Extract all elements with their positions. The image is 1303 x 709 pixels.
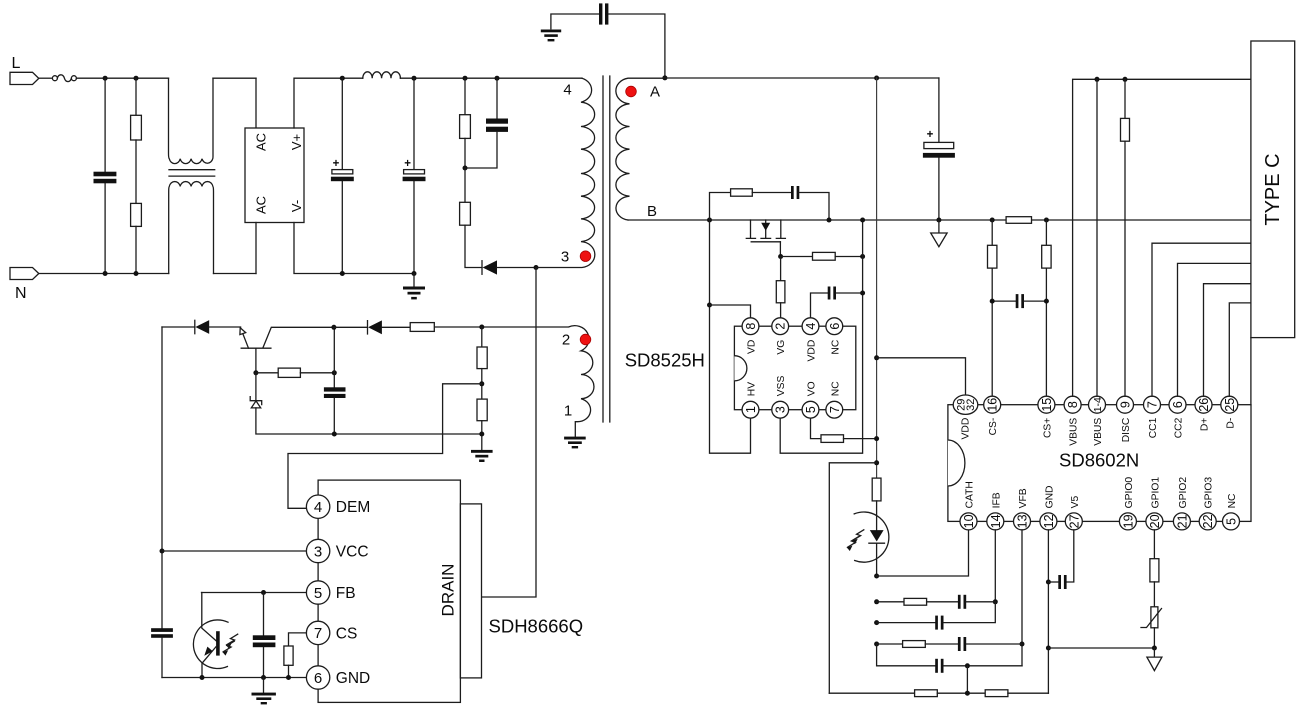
- thermistor RT1: [1141, 607, 1162, 648]
- wire VFB pin down: [1021, 530, 1023, 666]
- svg-text:3: 3: [774, 406, 788, 413]
- node B rail CS+ junction: [1044, 218, 1049, 223]
- svg-text:7: 7: [314, 625, 322, 642]
- svg-text:3: 3: [314, 543, 322, 560]
- wire rail after inductor: [400, 77, 582, 79]
- wire comp row E: [877, 644, 936, 666]
- resistor R-cs-plus: [1042, 220, 1051, 396]
- wire drain down to SDH8666Q tab: [482, 268, 537, 598]
- node CS resistor gnd junction: [286, 675, 291, 680]
- svg-text:V5: V5: [1070, 496, 1081, 509]
- resistor R-ntc-series: [1150, 530, 1159, 607]
- ground primary earth: [403, 274, 425, 300]
- wire FB node: [202, 592, 307, 594]
- resistor R-aux: [410, 323, 434, 332]
- svg-text:VFB: VFB: [1018, 488, 1029, 508]
- wire N rail: [39, 273, 169, 275]
- node clamp RC junction: [463, 166, 468, 171]
- diode D-vcc2: [334, 320, 410, 334]
- svg-text:16: 16: [986, 398, 1000, 412]
- wire L to fuse: [39, 77, 53, 79]
- capacitor C-vcc-cell: [324, 327, 346, 434]
- wire fuse to choke: [76, 77, 168, 79]
- wire bridge AC top: [255, 78, 257, 128]
- pin 1-4 VBUS: [1089, 396, 1106, 446]
- pin 29/32 VDD: [953, 395, 978, 439]
- svg-text:20: 20: [1148, 514, 1162, 528]
- node rail junction clamp R: [463, 76, 468, 81]
- svg-text:VSS: VSS: [776, 375, 787, 396]
- capacitor C-vfb1: [958, 637, 1022, 651]
- svg-text:DRAIN: DRAIN: [439, 564, 458, 617]
- svg-text:1-4: 1-4: [1092, 397, 1104, 412]
- node V+ rail junction at C-bulk1: [340, 76, 345, 81]
- fuse F1: [52, 75, 76, 82]
- wire vcc-cell top left: [162, 326, 195, 328]
- wire VCC to pin 3: [162, 550, 306, 552]
- diode D-clamp: [482, 260, 536, 274]
- svg-text:8: 8: [744, 323, 758, 330]
- ground DEM divider: [471, 450, 493, 462]
- resistor R-base: [256, 368, 334, 377]
- svg-text:HV: HV: [747, 382, 758, 396]
- wire GND pin down: [1047, 530, 1049, 693]
- node divider tap junction: [874, 460, 879, 465]
- pin 6 CC2: [1169, 396, 1186, 438]
- svg-text:9: 9: [1119, 401, 1133, 408]
- node comp row B left junction: [874, 599, 879, 604]
- svg-text:B: B: [647, 203, 657, 220]
- node B rail snubber left junction: [707, 218, 712, 223]
- pin 20 GPIO1: [1146, 477, 1163, 530]
- wire VBUS pin 1-4: [1096, 79, 1098, 396]
- svg-text:AC: AC: [254, 133, 269, 151]
- svg-text:SD8525H: SD8525H: [625, 350, 705, 371]
- node L-rail junction 1: [103, 76, 108, 81]
- svg-text:DISC: DISC: [1121, 417, 1132, 442]
- resistor R-ifb: [877, 598, 958, 605]
- transformer T1 secondary winding A-B: [616, 78, 664, 220]
- ground GPIO1 triangle: [1147, 648, 1162, 671]
- node CATH junction: [874, 574, 879, 579]
- svg-text:5: 5: [314, 585, 322, 602]
- resistor R-disc: [1121, 79, 1130, 396]
- node B rail snubber right junction: [827, 218, 832, 223]
- svg-text:8: 8: [1066, 401, 1080, 408]
- svg-text:L: L: [12, 55, 21, 72]
- node B rail CS- junction: [990, 218, 995, 223]
- pin 15 CS+: [1038, 396, 1055, 438]
- pin 5 NC: [1223, 493, 1240, 530]
- pin 4 VDD: [802, 318, 819, 362]
- node rail junction clamp C: [495, 76, 500, 81]
- svg-text:A: A: [650, 84, 660, 101]
- node N-rail junction 2: [134, 271, 139, 276]
- svg-text:2: 2: [774, 323, 788, 330]
- node Q1 base junction: [253, 370, 258, 375]
- diode D-vcc1: [195, 320, 209, 334]
- capacitor C-cs: [992, 294, 1046, 308]
- common-mode choke L-CM top winding: [169, 78, 214, 163]
- node rail junction at C-bulk2: [412, 76, 417, 81]
- wire between bleed resistors: [135, 140, 137, 203]
- ground aux winding: [564, 437, 586, 449]
- svg-text:7: 7: [1146, 401, 1160, 408]
- node comp row C left junction: [874, 620, 879, 625]
- svg-text:12: 12: [1042, 514, 1056, 528]
- connector J1 TYPE C: [1251, 41, 1295, 338]
- svg-text:3: 3: [561, 249, 569, 266]
- ground Y-cap: [541, 30, 561, 42]
- pin 7 CC1: [1144, 396, 1161, 438]
- node C-out B rail junction: [936, 218, 941, 223]
- wire CATH to pin 10: [877, 530, 969, 576]
- svg-text:GND: GND: [336, 670, 370, 687]
- svg-text:SD8602N: SD8602N: [1059, 450, 1139, 471]
- svg-text:CS: CS: [336, 625, 358, 642]
- pin 7 CS: [306, 621, 357, 644]
- svg-text:4: 4: [563, 82, 571, 99]
- node vcc-cell bottom rail junction: [332, 432, 337, 437]
- pin 6 NC: [826, 318, 843, 355]
- node V- rail junction at C-bulk1: [340, 271, 345, 276]
- svg-text:19: 19: [1121, 514, 1135, 528]
- wire DEM sense: [288, 384, 482, 509]
- chip U1 DRAIN tab: [439, 504, 482, 678]
- capacitor CY1 (Y-cap): [551, 3, 665, 77]
- node VDD sense junction: [874, 355, 879, 360]
- chip U1 SDH8666Q body: [318, 480, 583, 702]
- capacitor CX1 (X-cap): [94, 78, 117, 273]
- svg-text:NC: NC: [1227, 493, 1238, 508]
- pin 5 FB: [306, 581, 355, 604]
- optocoupler U2 transistor side: [193, 593, 237, 678]
- svg-text:N: N: [15, 285, 27, 302]
- resistor R-bleed1: [131, 78, 142, 140]
- resistor R-vdiv-bottom: [985, 690, 1048, 697]
- pin 25 D-: [1221, 396, 1238, 428]
- svg-text:5: 5: [1225, 518, 1239, 525]
- pin 8 VBUS: [1064, 396, 1081, 446]
- wire CC2: [1178, 263, 1251, 396]
- pin 22 GPIO3: [1199, 477, 1216, 530]
- terminal N: [10, 268, 39, 303]
- svg-text:4: 4: [314, 499, 322, 516]
- svg-text:+: +: [333, 158, 340, 170]
- resistor R-vo: [811, 418, 877, 442]
- node VD junction: [707, 303, 712, 308]
- svg-text:1: 1: [744, 406, 758, 413]
- resistor R-gate: [781, 252, 863, 260]
- pin 4 DEM: [306, 495, 370, 518]
- svg-text:5: 5: [804, 406, 818, 413]
- node divider mid top junction: [965, 663, 970, 668]
- svg-text:V+: V+: [289, 134, 304, 150]
- transistor Q1: [209, 327, 334, 373]
- pin 7 NC: [826, 381, 843, 418]
- node gate resistor right junction: [860, 254, 865, 259]
- svg-text:IFB: IFB: [991, 492, 1002, 508]
- node drain junction: [534, 265, 539, 270]
- resistor R-clamp1: [460, 78, 471, 168]
- capacitor C-bulk1 electrolytic: [331, 78, 354, 273]
- resistor R-dem1: [477, 327, 487, 399]
- resistor R-bleed2: [131, 203, 142, 273]
- capacitor C-fb: [253, 593, 276, 678]
- svg-text:25: 25: [1223, 398, 1237, 412]
- wire VBUS top segment: [1073, 79, 1251, 396]
- inductor L-filter: [363, 72, 401, 78]
- svg-text:D-: D-: [1225, 418, 1236, 429]
- wire CC1: [1152, 243, 1251, 396]
- wire IFB pin down: [994, 530, 996, 602]
- svg-text:CATH: CATH: [965, 481, 976, 508]
- node gate junction: [778, 254, 783, 259]
- pin 13 VFB: [1014, 488, 1031, 530]
- svg-text:VDD: VDD: [960, 418, 971, 440]
- node C-cs right junction: [1044, 299, 1049, 304]
- pin 5 VO: [802, 381, 819, 418]
- terminal L: [10, 55, 39, 85]
- svg-text:VCC: VCC: [336, 544, 369, 561]
- svg-text:NC: NC: [830, 339, 841, 354]
- node opto emitter junction: [200, 675, 205, 680]
- node NTC gnd junction: [1152, 646, 1157, 651]
- capacitor C-ifb2: [877, 602, 996, 630]
- pin 8 VD: [742, 318, 759, 354]
- bridge rectifier BR1: [245, 128, 304, 223]
- wire divider feed: [829, 463, 876, 693]
- svg-text:TYPE C: TYPE C: [1262, 153, 1284, 225]
- svg-text:VBUS: VBUS: [1069, 418, 1080, 446]
- svg-text:7: 7: [828, 406, 842, 413]
- svg-text:VBUS: VBUS: [1093, 418, 1104, 446]
- node VDD cap junction: [860, 291, 865, 296]
- svg-text:14: 14: [989, 514, 1003, 528]
- capacitor C-out electrolytic: [923, 78, 955, 220]
- resistor R-vfb: [877, 641, 958, 648]
- svg-text:VD: VD: [747, 340, 758, 354]
- node Y-cap junction on A rail: [662, 75, 667, 80]
- node red dot pin 3: [580, 251, 591, 262]
- resistor R-led: [872, 478, 881, 530]
- svg-text:1: 1: [564, 403, 572, 420]
- capacitor C-clamp: [465, 78, 508, 168]
- svg-text:6: 6: [828, 323, 842, 330]
- node DEM divider junction: [479, 381, 484, 386]
- svg-text:DEM: DEM: [336, 499, 370, 516]
- zener D-z1: [250, 373, 482, 434]
- pin 10 CATH: [960, 481, 977, 530]
- node red dot pin A: [626, 86, 637, 97]
- transformer T1 primary winding pins 4-3: [536, 78, 595, 267]
- pin 3 VCC: [306, 539, 368, 562]
- svg-text:2: 2: [562, 332, 570, 349]
- wire choke to bridge bottom: [214, 273, 257, 275]
- node DISC junction: [1123, 77, 1128, 82]
- svg-text:FB: FB: [336, 585, 356, 602]
- wire divider mid link: [966, 666, 968, 693]
- node VFB junction: [1020, 642, 1025, 647]
- capacitor C-vcc: [151, 628, 173, 677]
- optocoupler U2 LED side: [847, 512, 889, 576]
- pin 14 IFB: [987, 492, 1004, 530]
- svg-text:GPIO0: GPIO0: [1124, 477, 1135, 509]
- svg-text:32: 32: [965, 399, 977, 411]
- wire D+: [1204, 284, 1251, 397]
- chip U3 SD8525H body: [734, 326, 855, 410]
- wire primary gnd rail: [162, 677, 306, 679]
- pin 16 CS-: [984, 396, 1001, 435]
- node C-cs left junction: [990, 299, 995, 304]
- wire TYPE C gnd link to chip: [1250, 338, 1252, 405]
- wire choke to bridge top: [213, 77, 256, 79]
- pin 19 GPIO0: [1119, 477, 1136, 530]
- node comp row D left junction: [874, 642, 879, 647]
- wire HV net: [710, 220, 751, 453]
- node aux divider top junction: [479, 325, 484, 330]
- svg-text:AC: AC: [254, 196, 269, 214]
- svg-text:VO: VO: [807, 381, 818, 396]
- wire bridge V- to rail: [294, 223, 414, 274]
- node red dot pin 2: [580, 334, 591, 345]
- common-mode choke core lines: [169, 170, 215, 176]
- wire B rail: [628, 219, 1251, 221]
- node A rail long-vertical junction: [874, 76, 879, 81]
- capacitor C-snub: [791, 186, 829, 220]
- capacitor C-vdd8525: [811, 287, 863, 318]
- node GND row junction: [1046, 646, 1051, 651]
- svg-text:CS-: CS-: [988, 418, 999, 436]
- transformer T1 aux winding pins 2-1: [434, 326, 594, 437]
- ground primary signal: [252, 678, 276, 705]
- svg-text:10: 10: [962, 514, 976, 528]
- svg-text:4: 4: [804, 323, 818, 330]
- transformer T1 core: [603, 76, 610, 422]
- pin 12 GND: [1040, 486, 1057, 530]
- capacitor C-ifb1: [958, 595, 995, 609]
- svg-text:GPIO2: GPIO2: [1178, 477, 1189, 509]
- node diode D-vcc2 input junction: [331, 325, 336, 330]
- node N-rail junction 1: [103, 271, 108, 276]
- resistor R-snub: [710, 189, 792, 220]
- node FB cap gnd junction: [261, 675, 266, 680]
- svg-text:D+: D+: [1200, 418, 1211, 431]
- common-mode choke bottom winding: [169, 182, 214, 274]
- svg-text:13: 13: [1016, 514, 1030, 528]
- node divider bottom junction: [479, 432, 484, 437]
- pin 26 D+: [1195, 396, 1212, 431]
- svg-text:CC1: CC1: [1148, 417, 1159, 438]
- capacitor C-vfb2: [935, 659, 1022, 673]
- wire VBUS long vertical: [876, 78, 878, 478]
- wire VDD sense to SD8602N: [877, 358, 966, 396]
- pin 27 V5: [1065, 496, 1082, 530]
- capacitor C-bulk2 electrolytic: [403, 78, 426, 273]
- svg-text:6: 6: [1171, 401, 1185, 408]
- svg-text:VDD: VDD: [807, 340, 818, 362]
- wire VD pin8: [710, 305, 751, 318]
- svg-text:+: +: [404, 158, 411, 170]
- resistor R-clamp2: [460, 168, 482, 268]
- wire VSS net: [780, 220, 862, 453]
- node VBUS pin1-4 junction: [1095, 77, 1100, 82]
- svg-text:GPIO1: GPIO1: [1150, 477, 1161, 509]
- resistor R-cs-minus: [988, 220, 997, 396]
- wire D-: [1229, 303, 1251, 396]
- node L-rail junction 2: [134, 76, 139, 81]
- pin 2 VG: [772, 318, 789, 355]
- resistor R-cs: [284, 633, 307, 678]
- svg-text:15: 15: [1040, 398, 1054, 412]
- resistor R-vg: [776, 257, 785, 318]
- resistor R-shunt: [1006, 217, 1031, 224]
- svg-text:CS+: CS+: [1042, 418, 1053, 438]
- node VSS junction on B rail: [860, 218, 865, 223]
- pin 9 DISC: [1117, 396, 1134, 442]
- svg-text:VG: VG: [776, 340, 787, 355]
- chip U4 SD8602N body: [948, 405, 1251, 522]
- node V5 cap gnd junction: [1046, 580, 1051, 585]
- svg-text:GPIO3: GPIO3: [1204, 477, 1215, 509]
- node FB cap junction: [261, 590, 266, 595]
- wire GND row: [1048, 647, 1154, 649]
- wire VCC vertical left: [161, 327, 163, 628]
- svg-text:V-: V-: [289, 200, 304, 212]
- resistor R-dem2: [477, 399, 487, 450]
- svg-text:NC: NC: [830, 381, 841, 396]
- transistor Q2 SR MOSFET: [746, 220, 785, 257]
- pin 1 HV: [742, 382, 759, 418]
- svg-text:SDH8666Q: SDH8666Q: [489, 616, 584, 637]
- resistor R-vdiv-top (row F): [829, 690, 985, 697]
- svg-text:+: +: [927, 129, 934, 141]
- wire bridge V+ to rail: [294, 78, 363, 128]
- ground output triangle: [931, 220, 947, 247]
- svg-text:6: 6: [314, 670, 322, 687]
- wire A rail: [663, 77, 939, 79]
- pin 21 GPIO2: [1173, 477, 1190, 530]
- node IFB junction: [993, 599, 998, 604]
- capacitor C-v5: [1048, 530, 1073, 589]
- node vcc-cell cap top junction: [332, 370, 337, 375]
- node VO junction: [874, 436, 879, 441]
- node VCC tap junction: [160, 549, 165, 554]
- svg-text:CC2: CC2: [1174, 417, 1185, 438]
- node divider mid junction: [965, 691, 970, 696]
- svg-text:GND: GND: [1044, 486, 1055, 509]
- svg-text:26: 26: [1197, 398, 1211, 412]
- pin 3 VSS: [772, 375, 789, 418]
- svg-text:22: 22: [1201, 514, 1215, 528]
- wire bridge AC bottom: [255, 223, 257, 274]
- svg-text:27: 27: [1067, 514, 1081, 528]
- node V- rail junction at C-bulk2: [412, 271, 417, 276]
- svg-text:21: 21: [1175, 514, 1189, 528]
- pin 6 GND: [306, 666, 370, 689]
